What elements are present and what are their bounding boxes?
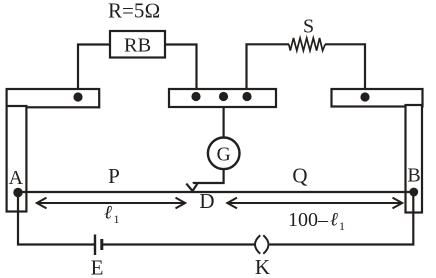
terminal dot right strip — [360, 92, 369, 101]
svg-text:1: 1 — [339, 219, 345, 233]
right end post — [406, 105, 423, 213]
svg-text:Q: Q — [292, 163, 307, 187]
key K right arc — [263, 235, 268, 254]
svg-text:1: 1 — [114, 212, 120, 226]
wire S left — [247, 44, 290, 90]
svg-text:P: P — [108, 164, 120, 188]
svg-text:G: G — [217, 145, 231, 166]
svg-text:R=5Ω: R=5Ω — [108, 0, 160, 23]
node A dot — [13, 188, 22, 197]
copper strip middle — [169, 89, 276, 107]
svg-text:K: K — [255, 255, 270, 278]
bridge wire A to B — [18, 191, 414, 193]
terminal dot middle strip 2 — [219, 92, 228, 101]
battery E long plate — [94, 235, 96, 256]
terminal dot middle strip 1 — [191, 92, 200, 101]
node B dot — [409, 188, 418, 197]
wire key to B — [270, 191, 414, 245]
battery E short plate — [100, 239, 103, 250]
arrow l1 double-headed — [37, 198, 185, 209]
terminal dot middle strip 3 — [242, 92, 251, 101]
jockey arrowhead at D — [186, 184, 197, 191]
svg-text:A: A — [9, 167, 24, 189]
key K left arc — [255, 235, 260, 254]
wire G to jockey — [193, 169, 224, 184]
wire S right — [325, 44, 365, 90]
svg-text:ℓ: ℓ — [104, 203, 112, 224]
copper strip right — [332, 89, 423, 107]
svg-text:RB: RB — [124, 35, 151, 57]
svg-text:B: B — [407, 165, 420, 187]
terminal dot left strip — [73, 92, 82, 101]
wire RB left — [78, 45, 110, 91]
left end post — [7, 106, 27, 212]
galvanometer G — [208, 138, 240, 170]
wire RB right — [165, 45, 197, 91]
resistor S zigzag — [289, 38, 325, 51]
copper strip left — [7, 89, 100, 107]
wire battery to key — [103, 243, 255, 245]
svg-text:D: D — [199, 189, 214, 213]
svg-text:ℓ: ℓ — [330, 210, 338, 231]
arrow 100-l1 double-headed — [227, 198, 402, 209]
svg-text:100–: 100– — [288, 209, 329, 231]
wire middle strip to galvanometer — [223, 107, 225, 138]
svg-text:E: E — [91, 256, 104, 278]
svg-text:S: S — [303, 15, 314, 37]
wire A down to bottom — [18, 193, 94, 245]
resistance box RB — [110, 31, 165, 58]
